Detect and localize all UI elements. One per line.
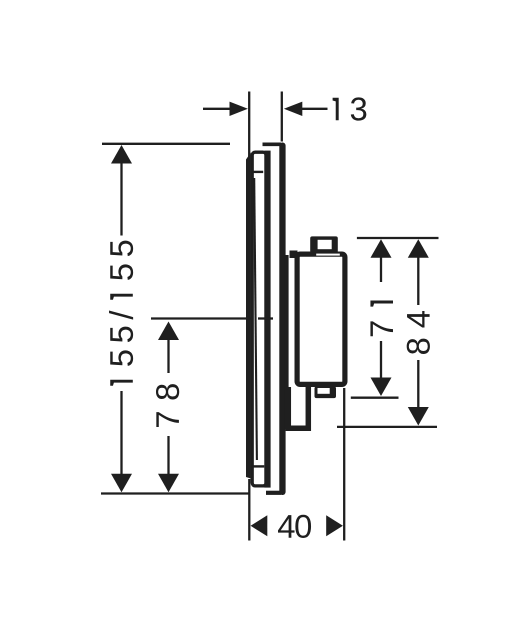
dimension 78: top arrowhead (158, 322, 179, 341)
dimension 155/155: top extension line (102, 143, 230, 145)
cartridge body top inner seam line (316, 254, 340, 256)
dimension 71: bottom extension line (351, 397, 399, 399)
cartridge bottom cap notch (318, 388, 330, 394)
dimension 71: dimension line upper segment (380, 255, 382, 282)
dimension 71/84: top extension line (357, 237, 439, 239)
supply pipe below cartridge (288, 387, 308, 428)
dimension 13: value label (333, 97, 367, 120)
dimension 71: top arrowhead (371, 239, 392, 258)
dimension 78: dimension line lower segment (167, 436, 169, 476)
dimension 155/155: top arrowhead (111, 145, 132, 164)
cartridge top cap notch (318, 240, 332, 249)
dimension 155/155: value label (109, 241, 133, 386)
rosette carrier top rung (252, 171, 263, 173)
dimension 40: value label (278, 515, 311, 538)
dimension 13: right extension line (281, 92, 283, 142)
dimension 40: left arrowhead (251, 515, 268, 536)
dimension 84: top arrowhead (408, 239, 429, 258)
cartridge bottom cap (315, 387, 337, 399)
dimension 78: top extension line (151, 317, 266, 319)
dimension 71: value label (370, 300, 393, 336)
dimension 40: right arrowhead (326, 515, 343, 536)
rosette middle wall bar (264, 151, 270, 488)
cartridge top-left flange tab (290, 251, 298, 259)
dimension 78: bottom arrowhead (158, 474, 179, 493)
rosette carrier bottom rung (253, 465, 265, 467)
dimension 40: left extension line (248, 479, 250, 541)
dimension 13: left arrowhead (230, 102, 248, 116)
dimension 155/155: bottom extension line (shared with 78) (101, 492, 249, 494)
wall seal plate (back plate bar, side view) (246, 153, 251, 479)
dimension 84: dimension line upper segment (417, 255, 419, 305)
dimension 13: left extension line (248, 92, 250, 158)
cartridge body (thermostat valve, side view) (297, 254, 345, 384)
dimension 40: right extension line (343, 388, 345, 541)
dimension 71: bottom arrowhead (371, 378, 392, 397)
dimension 84: dimension line lower segment (417, 360, 419, 408)
dimension 13: right leader line (302, 108, 328, 110)
rosette carrier chamfer line (254, 178, 257, 460)
dimension 84: bottom arrowhead (408, 407, 429, 426)
dimension 155/155: dimension line lower segment (120, 391, 122, 476)
dimension 78: value label (156, 384, 179, 427)
dimension 71: dimension line lower segment (380, 341, 382, 379)
dimension 78: extension tick through rosette gap (258, 317, 273, 319)
dimension 84: value label (407, 311, 430, 354)
cartridge left flange strip (285, 255, 289, 429)
dimension 155/155: dimension line upper segment (120, 161, 122, 236)
dimension 84: bottom extension line (337, 426, 437, 428)
rosette front top cap (263, 143, 282, 147)
rosette carrier outline (back part of escutcheon) (252, 152, 266, 486)
dimension 78: dimension line upper segment (167, 338, 169, 373)
dimension 155/155: bottom arrowhead (111, 474, 132, 493)
rosette front bottom cap (266, 491, 281, 495)
dimension 13: right arrowhead (284, 102, 302, 116)
rosette front face bar (279, 143, 285, 496)
dimension 13: left leader line (203, 108, 231, 110)
cartridge top cap (310, 236, 338, 253)
